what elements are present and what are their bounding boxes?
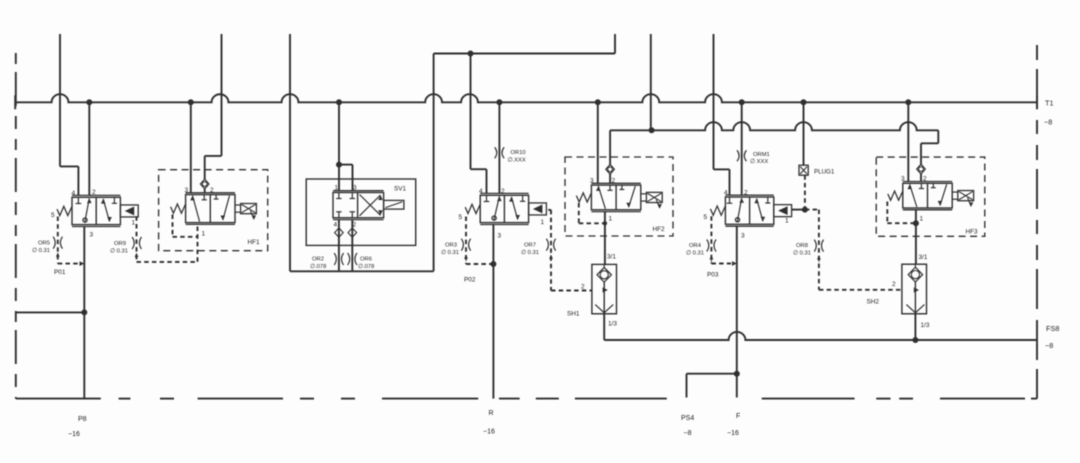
- svg-text:∅.XXX: ∅.XXX: [508, 157, 526, 164]
- svg-text:HF2: HF2: [653, 226, 666, 233]
- svg-text:3/1: 3/1: [919, 254, 928, 261]
- svg-text:3/1: 3/1: [607, 254, 616, 261]
- svg-text:2: 2: [353, 222, 357, 229]
- svg-text:3: 3: [90, 232, 94, 239]
- svg-text:2: 2: [92, 189, 96, 196]
- svg-text:OR6: OR6: [360, 257, 372, 263]
- svg-text:OR10: OR10: [511, 150, 526, 156]
- svg-text:3: 3: [498, 233, 502, 240]
- svg-text:4: 4: [479, 188, 483, 195]
- svg-text:5: 5: [459, 214, 463, 221]
- svg-text:−8: −8: [1044, 118, 1052, 127]
- svg-text:P01: P01: [54, 269, 66, 276]
- svg-text:1: 1: [132, 220, 136, 227]
- svg-text:OR2: OR2: [312, 257, 324, 263]
- svg-text:OR3: OR3: [445, 243, 457, 249]
- svg-text:P03: P03: [707, 272, 719, 279]
- svg-text:2: 2: [581, 284, 585, 291]
- svg-text:2: 2: [744, 190, 748, 197]
- svg-text:PLUG1: PLUG1: [814, 169, 835, 176]
- svg-text:OR8: OR8: [796, 243, 808, 249]
- svg-text:P8: P8: [78, 416, 87, 423]
- svg-text:R: R: [489, 410, 494, 417]
- svg-text:2: 2: [923, 176, 927, 183]
- svg-text:∅ 0.31: ∅ 0.31: [110, 248, 128, 255]
- svg-text:5: 5: [51, 212, 55, 219]
- svg-text:HF1: HF1: [248, 239, 261, 246]
- svg-text:OR7: OR7: [524, 243, 536, 249]
- svg-text:−16: −16: [68, 431, 80, 438]
- svg-text:SH1: SH1: [567, 311, 580, 318]
- svg-text:PS4: PS4: [681, 415, 694, 422]
- svg-text:3: 3: [590, 178, 594, 185]
- svg-text:SV1: SV1: [394, 186, 407, 193]
- svg-text:5: 5: [704, 214, 708, 221]
- svg-text:1: 1: [541, 219, 545, 226]
- svg-text:1: 1: [920, 216, 924, 223]
- svg-text:3: 3: [185, 187, 189, 194]
- svg-text:∅ XXX: ∅ XXX: [750, 158, 768, 165]
- svg-text:∅ 0.31: ∅ 0.31: [686, 250, 704, 257]
- svg-text:2: 2: [612, 178, 616, 185]
- svg-text:P02: P02: [464, 277, 476, 284]
- svg-text:2: 2: [892, 281, 896, 288]
- svg-text:3: 3: [901, 176, 905, 183]
- svg-text:3: 3: [741, 233, 745, 240]
- svg-text:∅ 0.31: ∅ 0.31: [521, 249, 539, 256]
- svg-text:−16: −16: [727, 430, 739, 437]
- svg-text:−8: −8: [1045, 341, 1053, 350]
- svg-text:4: 4: [334, 222, 338, 229]
- svg-text:FS8: FS8: [1046, 324, 1059, 333]
- svg-text:1: 1: [609, 216, 613, 223]
- svg-text:−16: −16: [483, 429, 495, 436]
- svg-text:1: 1: [202, 231, 206, 238]
- svg-text:∅.078: ∅.078: [358, 263, 374, 270]
- svg-text:1/3: 1/3: [921, 322, 930, 329]
- svg-text:HF3: HF3: [966, 229, 979, 236]
- svg-text:∅.078: ∅.078: [310, 263, 326, 270]
- svg-text:∅ 0.31: ∅ 0.31: [441, 249, 459, 256]
- svg-text:OR9: OR9: [114, 241, 126, 247]
- svg-text:4: 4: [724, 190, 728, 197]
- svg-text:2: 2: [210, 187, 214, 194]
- svg-text:OR5: OR5: [38, 241, 50, 247]
- svg-text:1: 1: [335, 185, 339, 192]
- svg-text:1/3: 1/3: [608, 321, 617, 328]
- svg-text:SH2: SH2: [867, 299, 880, 306]
- svg-text:OR4: OR4: [689, 243, 702, 249]
- svg-text:2: 2: [501, 188, 505, 195]
- svg-text:4: 4: [72, 190, 76, 197]
- svg-text:∅ 0.31: ∅ 0.31: [793, 250, 811, 257]
- svg-text:ORM1: ORM1: [753, 152, 770, 158]
- svg-text:3: 3: [353, 185, 357, 192]
- svg-text:F: F: [736, 413, 740, 420]
- svg-text:−8: −8: [684, 430, 692, 437]
- svg-text:1: 1: [785, 218, 789, 225]
- svg-text:T1: T1: [1045, 99, 1054, 108]
- svg-text:∅ 0.31: ∅ 0.31: [32, 247, 50, 254]
